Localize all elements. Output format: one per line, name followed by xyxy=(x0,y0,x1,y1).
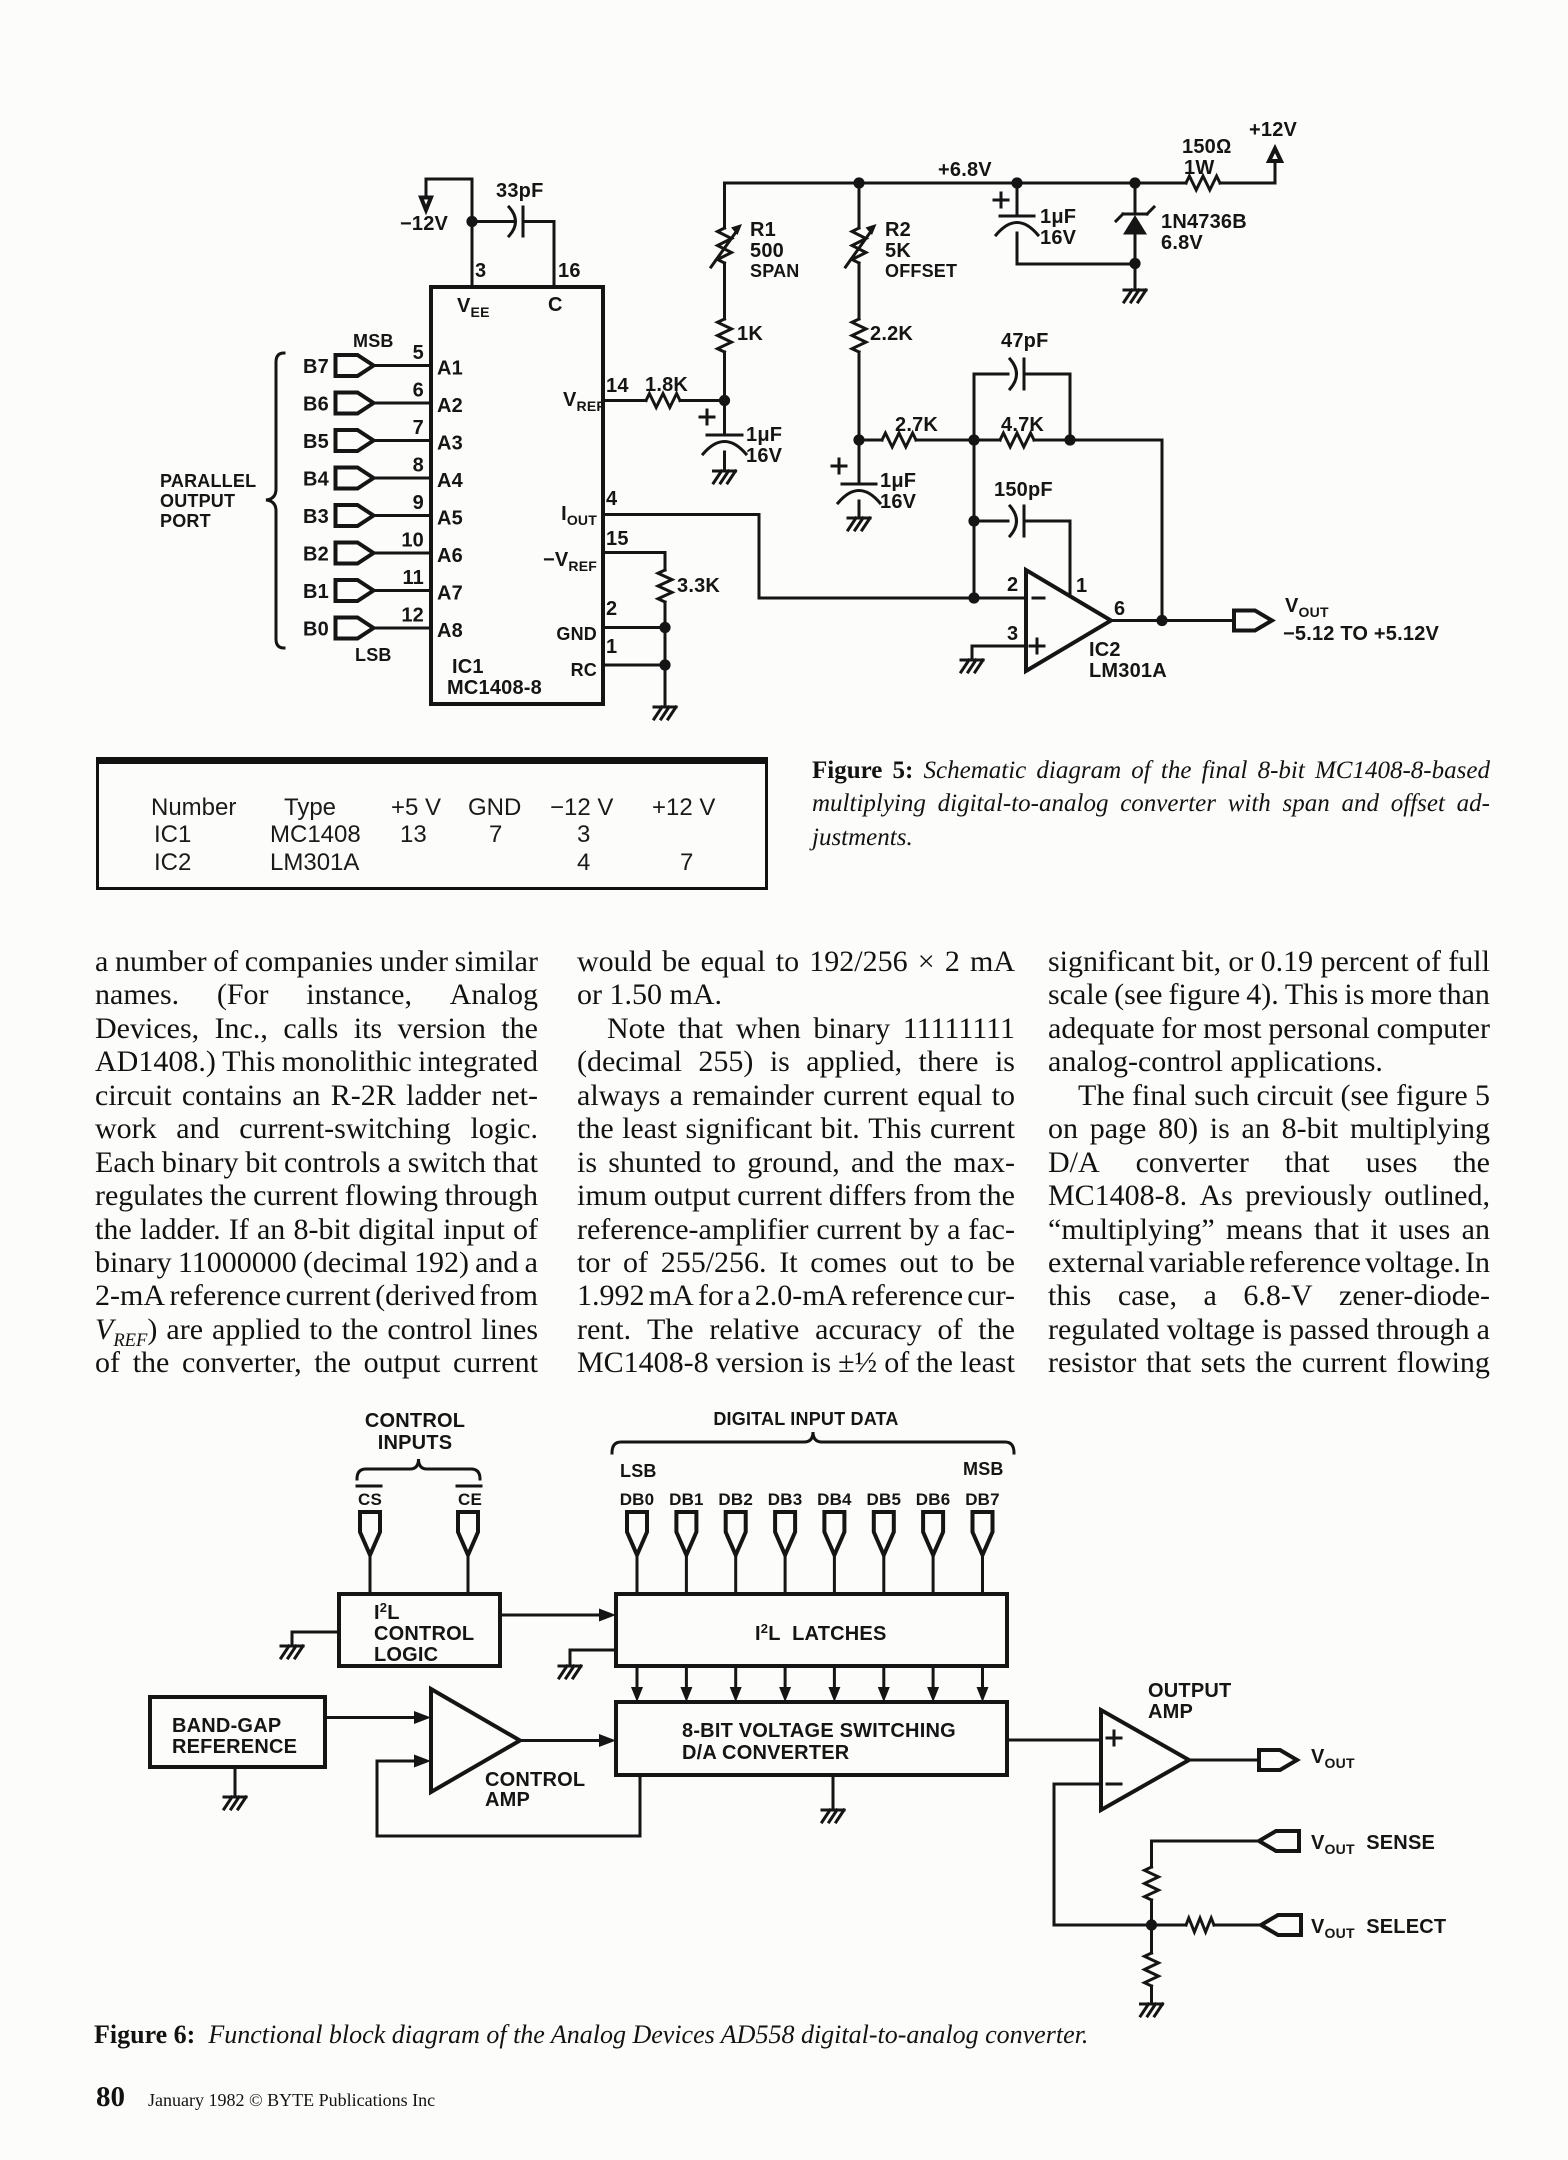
input flag CE xyxy=(458,1512,478,1555)
svg-text:B1: B1 xyxy=(303,581,329,603)
svg-text:47pF: 47pF xyxy=(1001,330,1048,352)
node 4.7K/47pF junction xyxy=(1064,434,1075,445)
svg-text:−12V: −12V xyxy=(400,213,449,235)
svg-text:150Ω: 150Ω xyxy=(1182,136,1232,158)
svg-text:16V: 16V xyxy=(1040,227,1077,249)
svg-text:VOUT SENSE: VOUT SENSE xyxy=(1311,1832,1435,1857)
svg-text:150pF: 150pF xyxy=(994,479,1053,501)
svg-text:IOUT: IOUT xyxy=(561,503,597,528)
svg-text:I2L: I2L xyxy=(374,1600,400,1624)
output flag VOUT xyxy=(1234,611,1272,631)
resistor 4.7K xyxy=(1000,433,1034,447)
svg-text:R2: R2 xyxy=(885,219,911,241)
svg-text:1μF: 1μF xyxy=(1040,206,1076,228)
svg-text:A2: A2 xyxy=(437,395,463,417)
output flag VOUT SELECT xyxy=(1261,1915,1301,1935)
svg-text:BAND-GAP: BAND-GAP xyxy=(172,1715,281,1737)
svg-text:VEE: VEE xyxy=(457,295,490,320)
svg-text:MC1408-8: MC1408-8 xyxy=(447,677,542,699)
svg-text:2.2K: 2.2K xyxy=(870,323,913,345)
svg-text:16V: 16V xyxy=(880,491,917,513)
svg-text:LOGIC: LOGIC xyxy=(374,1644,438,1666)
svg-text:1N4736B: 1N4736B xyxy=(1161,211,1247,233)
input flag B6 and wire to pin 6 (A2) xyxy=(336,393,374,414)
wire latch bit 4 to D/A xyxy=(833,1666,836,1690)
svg-text:3: 3 xyxy=(475,260,486,282)
resistor 1.8K xyxy=(646,394,680,408)
node junction -12V / C xyxy=(466,216,477,227)
input flag B5 and wire to pin 7 (A3) xyxy=(336,430,374,451)
input flag B3 and wire to pin 9 (A5) xyxy=(336,505,374,526)
svg-text:MSB: MSB xyxy=(963,1459,1004,1479)
svg-text:3: 3 xyxy=(1007,623,1018,645)
node rail/R2 xyxy=(853,177,864,188)
svg-text:SPAN: SPAN xyxy=(750,261,799,281)
svg-text:CS: CS xyxy=(358,1490,382,1509)
svg-text:DB5: DB5 xyxy=(866,1490,901,1509)
node offset junction xyxy=(853,434,864,445)
power -12V arrow xyxy=(421,198,431,211)
svg-text:3.3K: 3.3K xyxy=(677,575,720,597)
svg-text:AMP: AMP xyxy=(485,1789,530,1811)
brace digital input data xyxy=(612,1432,1014,1453)
svg-text:MSB: MSB xyxy=(353,331,394,351)
wire output amp to VOUT xyxy=(1189,1759,1259,1762)
svg-text:A5: A5 xyxy=(437,508,463,530)
svg-text:8: 8 xyxy=(413,455,424,477)
wire IOUT to inverting input xyxy=(759,597,1026,600)
amplifier output amp xyxy=(1101,1710,1189,1810)
wire latch bit 7 to D/A xyxy=(981,1666,984,1690)
svg-text:A4: A4 xyxy=(437,470,464,492)
resistor 150 ohm 1W xyxy=(1186,176,1220,190)
svg-text:1.8K: 1.8K xyxy=(645,374,688,396)
resistor select xyxy=(1152,1924,1187,1927)
svg-text:VOUT: VOUT xyxy=(1285,595,1329,620)
svg-text:C: C xyxy=(548,294,563,316)
resistor 1K xyxy=(718,319,732,352)
svg-text:16: 16 xyxy=(558,260,581,282)
brace control inputs xyxy=(357,1459,480,1479)
resistor 2.2K xyxy=(852,319,866,352)
wire inverting input feedback xyxy=(1054,1784,1152,1925)
capacitor C 1uF 16V (offset) xyxy=(858,440,861,484)
svg-text:B7: B7 xyxy=(303,356,329,378)
svg-text:PORT: PORT xyxy=(160,511,211,531)
svg-text:GND: GND xyxy=(556,624,597,644)
svg-text:6: 6 xyxy=(1114,598,1125,620)
amplifier control amp xyxy=(431,1689,520,1792)
potentiometer R2 5K OFFSET xyxy=(858,183,861,228)
svg-text:DIGITAL INPUT DATA: DIGITAL INPUT DATA xyxy=(713,1409,898,1429)
node 150pF branch xyxy=(968,515,979,526)
svg-text:LSB: LSB xyxy=(355,645,392,665)
svg-text:B6: B6 xyxy=(303,394,329,416)
svg-text:500: 500 xyxy=(750,240,784,262)
capacitor 1uF 16V (zener) xyxy=(1016,183,1019,216)
svg-text:REFERENCE: REFERENCE xyxy=(172,1736,297,1758)
svg-text:12: 12 xyxy=(401,605,424,627)
svg-text:DB2: DB2 xyxy=(718,1490,753,1509)
svg-text:IC2: IC2 xyxy=(1089,639,1121,661)
input flag B1 and wire to pin 11 (A7) xyxy=(336,580,374,601)
node rail/C junction xyxy=(1011,177,1022,188)
svg-text:2: 2 xyxy=(1007,574,1018,596)
input flag B4 and wire to pin 8 (A4) xyxy=(336,468,374,489)
node VREF junction xyxy=(719,395,730,406)
svg-text:LSB: LSB xyxy=(620,1461,657,1481)
svg-text:CONTROL: CONTROL xyxy=(374,1623,474,1645)
wire control logic to latches xyxy=(500,1614,603,1617)
svg-text:A6: A6 xyxy=(437,545,463,567)
svg-text:1W: 1W xyxy=(1184,157,1214,179)
ground control logic xyxy=(292,1632,339,1646)
svg-text:DB3: DB3 xyxy=(768,1490,803,1509)
footer xyxy=(96,2081,125,2114)
figure 6 caption xyxy=(94,2020,1394,2050)
svg-text:6: 6 xyxy=(413,380,424,402)
svg-text:D/A CONVERTER: D/A CONVERTER xyxy=(682,1742,850,1764)
svg-text:2.7K: 2.7K xyxy=(895,414,938,436)
svg-text:IC1: IC1 xyxy=(452,656,484,678)
wire band-gap to control amp xyxy=(325,1716,418,1719)
output flag VOUT SENSE xyxy=(1152,1840,1260,1843)
body text column 1 xyxy=(95,945,538,1380)
power +12V arrow xyxy=(1274,161,1277,183)
node RC junction xyxy=(659,659,670,670)
svg-text:−VREF: −VREF xyxy=(543,549,597,574)
svg-text:1: 1 xyxy=(606,636,617,658)
svg-text:DB4: DB4 xyxy=(817,1490,852,1509)
svg-text:+12V: +12V xyxy=(1249,119,1298,141)
node inverting input junction xyxy=(968,592,979,603)
svg-text:1μF: 1μF xyxy=(880,470,916,492)
svg-text:−5.12 TO +5.12V: −5.12 TO +5.12V xyxy=(1283,623,1440,645)
input flag B2 and wire to pin 10 (A6) xyxy=(336,543,374,564)
capacitor 150pF xyxy=(974,520,1008,523)
input flag CS xyxy=(360,1512,380,1555)
svg-text:CE: CE xyxy=(458,1490,482,1509)
svg-text:RC: RC xyxy=(571,660,597,680)
wire D/A to output amp xyxy=(1007,1739,1101,1742)
+6.8V rail xyxy=(725,182,1276,185)
wire output xyxy=(1111,619,1234,622)
wire control amp to D/A xyxy=(520,1739,603,1742)
block 8-bit voltage switching D/A converter xyxy=(616,1702,1007,1775)
node GND junction xyxy=(659,622,670,633)
wire latch bit 3 to D/A xyxy=(784,1666,787,1690)
potentiometer R1 500 SPAN xyxy=(718,228,732,263)
svg-text:OUTPUT: OUTPUT xyxy=(160,491,235,511)
svg-text:33pF: 33pF xyxy=(496,180,543,202)
svg-text:10: 10 xyxy=(401,530,424,552)
svg-text:DB0: DB0 xyxy=(620,1490,655,1509)
wire latch bit 1 to D/A xyxy=(685,1666,688,1690)
svg-text:B2: B2 xyxy=(303,544,329,566)
svg-text:AMP: AMP xyxy=(1148,1701,1193,1723)
wire latch bit 6 to D/A xyxy=(932,1666,935,1690)
svg-text:4: 4 xyxy=(606,488,618,510)
svg-text:DB1: DB1 xyxy=(669,1490,704,1509)
brace parallel output port xyxy=(266,353,284,648)
block I2L latches xyxy=(616,1594,1007,1666)
svg-text:PARALLEL: PARALLEL xyxy=(160,471,256,491)
ground latches xyxy=(570,1650,616,1666)
svg-text:OUTPUT: OUTPUT xyxy=(1148,1680,1231,1702)
svg-text:INPUTS: INPUTS xyxy=(378,1432,453,1454)
svg-text:7: 7 xyxy=(413,417,424,439)
node summing junction xyxy=(968,434,979,445)
svg-text:16V: 16V xyxy=(746,445,783,467)
svg-text:CONTROL: CONTROL xyxy=(485,1769,585,1791)
svg-text:5K: 5K xyxy=(885,240,911,262)
wire feedback D/A to control amp xyxy=(377,1761,640,1836)
zener diode 1N4736B 6.8V xyxy=(1134,183,1137,214)
svg-text:15: 15 xyxy=(606,528,629,550)
svg-text:4.7K: 4.7K xyxy=(1001,414,1044,436)
ground D/A converter xyxy=(832,1775,835,1810)
svg-text:CONTROL: CONTROL xyxy=(365,1410,465,1432)
capacitor 47pF xyxy=(974,374,1008,440)
svg-text:R1: R1 xyxy=(750,219,776,241)
IC IC1 MC1408-8 body xyxy=(431,287,603,704)
svg-text:VOUT SELECT: VOUT SELECT xyxy=(1311,1916,1446,1941)
svg-text:A3: A3 xyxy=(437,433,463,455)
ground lower xyxy=(1141,2003,1163,2006)
svg-text:VREF: VREF xyxy=(563,389,605,414)
svg-text:A7: A7 xyxy=(437,583,463,605)
output flag VOUT xyxy=(1259,1750,1297,1770)
parts table xyxy=(96,757,768,890)
wire latch bit 5 to D/A xyxy=(882,1666,885,1690)
svg-text:LM301A: LM301A xyxy=(1089,660,1167,682)
svg-text:11: 11 xyxy=(402,567,424,589)
svg-text:DB6: DB6 xyxy=(916,1490,951,1509)
svg-text:DB7: DB7 xyxy=(965,1490,1000,1509)
input flag B7 and wire to pin 5 (A1) xyxy=(336,355,374,376)
svg-text:2: 2 xyxy=(606,598,617,620)
block I2L control logic xyxy=(339,1594,500,1666)
block band-gap reference xyxy=(150,1697,325,1767)
svg-text:B0: B0 xyxy=(303,619,329,641)
node feedback junction xyxy=(1146,1919,1157,1930)
svg-text:VOUT: VOUT xyxy=(1311,1746,1355,1771)
input flag B0 and wire to pin 12 (A8) xyxy=(336,618,374,639)
ground band-gap xyxy=(234,1767,237,1797)
svg-text:5: 5 xyxy=(413,342,424,364)
svg-text:14: 14 xyxy=(606,375,629,397)
svg-text:8-BIT VOLTAGE SWITCHING: 8-BIT VOLTAGE SWITCHING xyxy=(682,1720,956,1742)
body text column 3 xyxy=(1048,945,1490,1380)
svg-text:B3: B3 xyxy=(303,506,329,528)
node rail/zener junction xyxy=(1129,177,1140,188)
body text column 2 xyxy=(577,945,1015,1380)
wire VREF node up xyxy=(723,352,726,401)
svg-text:1K: 1K xyxy=(737,323,763,345)
svg-text:9: 9 xyxy=(413,492,424,514)
svg-text:OFFSET: OFFSET xyxy=(885,261,957,281)
resistor 3.3K xyxy=(658,570,672,602)
op-amp IC2 LM301A xyxy=(1026,570,1111,671)
resistor lower xyxy=(1150,1925,1153,1953)
node output/feedback junction xyxy=(1156,615,1167,626)
wire feedback down xyxy=(1161,440,1164,621)
wire 47pF node down xyxy=(973,440,976,598)
node zener/ground junction xyxy=(1129,258,1140,269)
svg-text:6.8V: 6.8V xyxy=(1161,232,1203,254)
wire latch bit 0 to D/A xyxy=(636,1666,639,1690)
svg-text:I2L LATCHES: I2L LATCHES xyxy=(755,1621,887,1645)
resistor sense xyxy=(1150,1841,1153,1867)
ground non-inverting input xyxy=(972,646,1026,660)
svg-text:B4: B4 xyxy=(303,469,330,491)
capacitor C 1uF 16V (VREF) xyxy=(723,401,726,436)
svg-text:+6.8V: +6.8V xyxy=(938,159,992,181)
svg-text:A1: A1 xyxy=(437,358,463,380)
capacitor 33pF xyxy=(472,220,514,223)
svg-text:1: 1 xyxy=(1076,575,1087,597)
ground IC1 xyxy=(664,665,667,707)
resistor 2.7K xyxy=(859,439,882,442)
wire latch bit 2 to D/A xyxy=(734,1666,737,1690)
svg-text:1μF: 1μF xyxy=(746,424,782,446)
svg-text:A8: A8 xyxy=(437,620,463,642)
svg-text:B5: B5 xyxy=(303,431,329,453)
